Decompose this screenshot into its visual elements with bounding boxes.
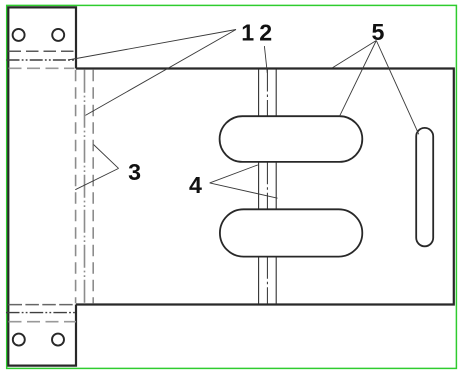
svg-text:1: 1	[241, 19, 254, 45]
svg-text:5: 5	[371, 19, 384, 45]
svg-text:4: 4	[189, 172, 202, 198]
svg-text:2: 2	[259, 19, 272, 45]
svg-text:3: 3	[128, 159, 141, 185]
